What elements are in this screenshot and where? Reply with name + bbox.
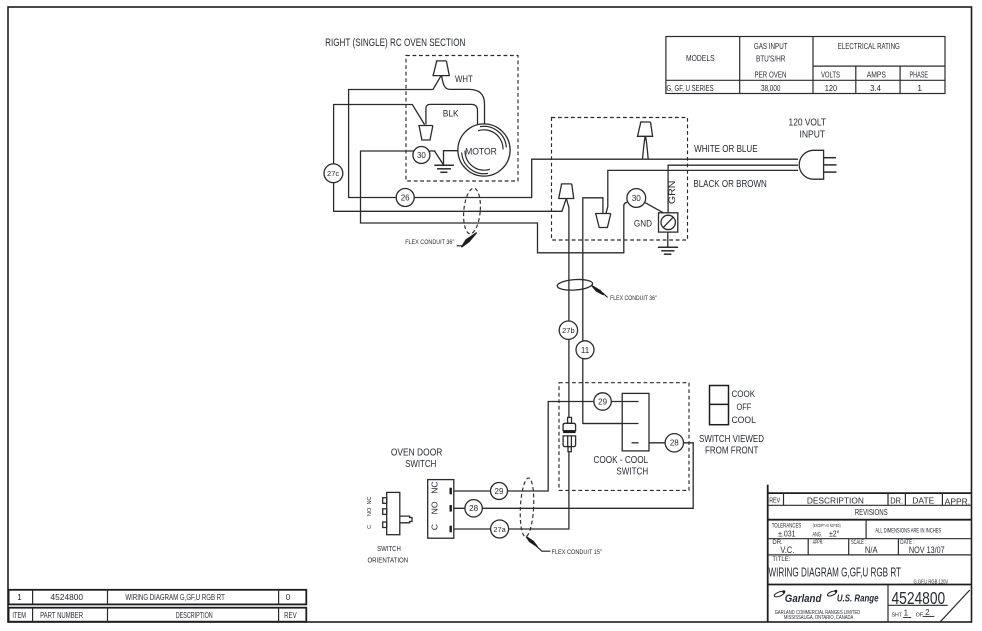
svg-text:Garland: Garland [785,593,822,605]
svg-text:BLACK OR BROWN: BLACK OR BROWN [693,179,766,190]
svg-text:VOLTS: VOLTS [821,70,840,80]
svg-text:NO: NO [429,501,439,514]
ground (motor) [434,165,454,172]
node 28 (cook-cool) [665,434,683,452]
inline splice connector on 27 net [563,417,576,451]
node 28 (oven door) [465,500,482,517]
svg-text:±.031: ±.031 [778,530,796,539]
svg-text:0: 0 [286,593,291,602]
wire GRN net: plug to GND box [668,165,798,213]
svg-text:REV: REV [284,611,297,620]
wire WHT net: oven plug to left rail, node 26, up to white/blue line [349,76,798,198]
svg-text:C: C [367,525,373,529]
svg-text:29: 29 [598,397,607,406]
terminal plug P2b [595,214,610,228]
svg-text:4524800: 4524800 [892,588,946,608]
svg-text:REV: REV [769,496,780,505]
flex conduit ellipse (door switch wires) [519,478,535,537]
svg-text:RIGHT (SINGLE) RC OVEN SECTION: RIGHT (SINGLE) RC OVEN SECTION [325,37,465,49]
svg-text:REVISIONS: REVISIONS [855,508,888,517]
svg-text:1: 1 [17,593,22,602]
svg-text:MISSISSAUGA, ONTARIO, CANADA: MISSISSAUGA, ONTARIO, CANADA [784,615,854,621]
svg-text:28: 28 [469,504,478,513]
node 29 (oven door) [491,483,508,500]
GND terminal box [659,213,678,232]
svg-text:4524800: 4524800 [51,593,84,602]
svg-text:ITEM: ITEM [12,611,26,620]
wire WHT plug to motor (curved lead) [442,76,485,124]
label FLEX CONDUIT 15" [526,537,602,556]
svg-text:MOTOR: MOTOR [465,147,497,158]
svg-text:SWITCH: SWITCH [377,546,401,553]
svg-text:COOL: COOL [731,415,756,426]
wire P2b to cook-cool rail [583,198,639,424]
svg-text:ALL DIMENSIONS ARE IN INCHES: ALL DIMENSIONS ARE IN INCHES [875,528,941,534]
flex conduit ellipse (riser wires) [557,278,593,291]
wire node30 to GND box [645,202,665,213]
wire motor lead to ground [444,151,458,165]
svg-text:APPR.: APPR. [945,497,970,506]
svg-text:WIRING DIAGRAM G,GF,U RGB RT: WIRING DIAGRAM G,GF,U RGB RT [769,564,902,579]
svg-text:G,GF,U RGB 120V: G,GF,U RGB 120V [914,579,949,585]
svg-text:ELECTRICAL RATING: ELECTRICAL RATING [838,41,900,51]
motor M [458,124,510,176]
svg-text:27c: 27c [327,169,339,178]
svg-text:OF: OF [916,612,923,618]
svg-text:V.C.: V.C. [780,545,794,555]
svg-text:NO: NO [367,507,373,516]
svg-text:U.S. Range: U.S. Range [837,592,879,604]
RC oven section enclosure (dashed) [406,56,518,182]
svg-text:WIRING DIAGRAM G,GF,U RGB RT: WIRING DIAGRAM G,GF,U RGB RT [125,593,224,602]
svg-text:MODELS: MODELS [686,53,715,63]
svg-text:26: 26 [401,193,410,202]
svg-text:30: 30 [632,194,642,203]
120 volt input enclosure (dashed) [552,118,688,241]
svg-text:TOLERANCES: TOLERANCES [772,523,802,530]
label FLEX CONDUIT 36" (riser) [592,286,657,302]
wire 30 net: motor ground rail to node 30 of 120V box [361,151,628,253]
node 26 [396,189,414,207]
cook-cool section enclosure (dashed) [559,383,689,491]
svg-text:27a: 27a [493,525,506,534]
node 30 (120V box) [627,189,646,208]
svg-text:COOK - COOL: COOK - COOL [593,455,648,466]
node 29 (cook-cool) [594,393,611,410]
svg-text:27b: 27b [562,326,575,335]
svg-text:N/A: N/A [865,545,878,555]
svg-text:G, GF, U SERIES: G, GF, U SERIES [667,83,714,93]
terminal plug P2a (white/blue) [638,122,653,159]
wire BLK plug to motor (arc lead) [426,104,478,125]
svg-text:AMPS: AMPS [867,70,886,80]
node 27c [324,164,343,183]
svg-text:GAS INPUT: GAS INPUT [754,41,788,51]
terminal plug P2c (black/brown mate) [559,184,574,199]
svg-text:±2°: ±2° [829,530,839,539]
svg-text:29: 29 [495,487,504,496]
svg-text:PER OVEN: PER OVEN [755,70,787,80]
svg-text:38,000: 38,000 [761,83,781,93]
svg-text:COOK: COOK [731,389,755,400]
parts list table [9,590,307,622]
svg-text:OFF: OFF [737,402,752,413]
svg-text:GRN: GRN [666,181,677,205]
svg-text:120: 120 [825,83,838,93]
wire 29 net: cook-cool pin1 to oven door NC [454,402,639,492]
oven door switch body [428,480,454,539]
svg-text:NC: NC [429,481,439,493]
svg-text:APPR.: APPR. [813,540,824,546]
switch orientation symbol [367,492,412,534]
svg-text:1: 1 [904,609,909,618]
120V wall plug [799,150,836,179]
rocker switch face icon [710,386,729,425]
svg-text:FLEX CONDUIT 36": FLEX CONDUIT 36" [610,295,657,302]
svg-text:DESCRIPTION: DESCRIPTION [807,496,864,505]
svg-text:PHASE: PHASE [910,70,929,80]
svg-text:WHT: WHT [455,74,473,84]
wire 28 net: cook-cool pin3 to oven door NO [454,443,693,509]
svg-text:28: 28 [670,439,679,448]
svg-text:SWITCH VIEWED: SWITCH VIEWED [699,434,764,445]
ground (120V box) [658,232,678,254]
node 27a [491,520,509,538]
svg-text:2: 2 [925,608,930,617]
terminal plug BLK [419,126,433,141]
wire P2c down to oven door switch C net [454,199,569,529]
svg-text:FLEX CONDUIT 36": FLEX CONDUIT 36" [405,239,454,246]
wire BLK net: oven plug via 27c rail to P2c plug in 120V box [334,105,567,212]
svg-text:NC: NC [367,496,373,504]
svg-text:INPUT: INPUT [799,130,825,141]
svg-text:NOV 13/07: NOV 13/07 [909,545,945,555]
svg-text:30: 30 [417,151,426,160]
flex conduit ellipse (oven section wires) [462,188,482,235]
svg-text:SWITCH: SWITCH [616,466,648,477]
svg-text:120 VOLT: 120 VOLT [789,118,827,129]
svg-text:BTU'S/HR: BTU'S/HR [756,53,786,63]
svg-text:WHITE OR BLUE: WHITE OR BLUE [694,144,758,155]
svg-text:ANG.: ANG. [812,532,822,538]
svg-text:BLK: BLK [443,108,460,118]
svg-text:3.4: 3.4 [870,83,881,93]
cook-cool pin 3 tick [632,442,639,444]
spec table [666,37,945,94]
svg-text:DATE: DATE [912,496,934,505]
svg-text:SWITCH: SWITCH [405,459,436,470]
terminal plug WHT [433,61,449,76]
wire BLACK OR BROWN net: plug to P2b plug [606,170,798,213]
wire node30 to motor ground [435,151,444,165]
svg-text:FROM FRONT: FROM FRONT [705,446,758,457]
cook-cool switch body [622,393,649,451]
svg-text:C: C [429,524,439,530]
svg-text:1: 1 [917,83,922,93]
label FLEX CONDUIT 36" (left) [405,233,476,247]
svg-text:11: 11 [581,346,590,355]
svg-text:DESCRIPTION: DESCRIPTION [176,611,213,620]
node 30 (oven section) [413,147,430,164]
svg-text:ORIENTATION: ORIENTATION [367,557,408,564]
svg-text:FLEX CONDUIT 15": FLEX CONDUIT 15" [552,549,603,556]
svg-text:SHT: SHT [892,612,903,618]
title block [768,485,972,622]
svg-text:PART NUMBER: PART NUMBER [40,611,83,620]
svg-text:TITLE:: TITLE: [772,557,790,563]
svg-text:DR.: DR. [890,496,903,505]
svg-text:OVEN DOOR: OVEN DOOR [391,447,443,458]
node 27b [559,321,577,339]
svg-text:(EXCEPT AS NOTED): (EXCEPT AS NOTED) [813,523,841,529]
node 11 [576,341,594,359]
svg-text:GND: GND [634,218,652,229]
cook-cool pin 2 lead [583,423,639,425]
